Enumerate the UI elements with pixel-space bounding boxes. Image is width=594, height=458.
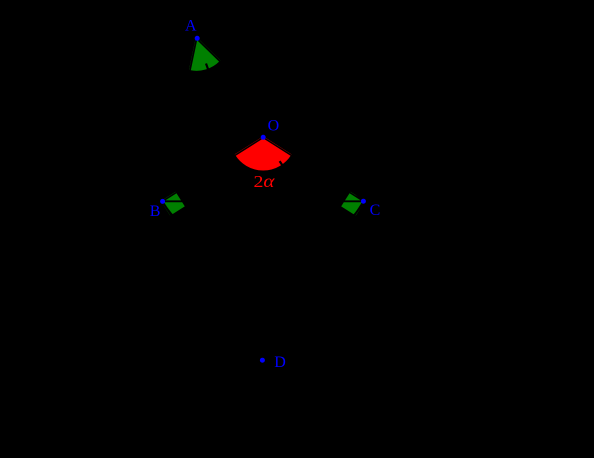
dot C [361, 199, 366, 204]
chord AC [197, 39, 364, 202]
right-angle square mark at C (green, tangent-radius) [343, 193, 364, 214]
dot D [260, 358, 265, 363]
circle centre O (black, invisible on black bg, crosses wedges) [144, 18, 383, 257]
radius OB [162, 138, 263, 202]
chord BC [162, 200, 363, 202]
right-angle square mark at B (green, tangent-radius) [162, 193, 183, 214]
svg-text:B: B [150, 203, 161, 220]
svg-text:2α: 2α [254, 171, 276, 191]
radius OC [263, 138, 364, 202]
rim tick in sector O (radius step notch) [280, 161, 284, 167]
dot B [160, 199, 165, 204]
svg-text:A: A [185, 17, 197, 34]
central angle sector at O (red, 2 alpha) [236, 138, 290, 170]
dot O [261, 135, 266, 140]
svg-text:D: D [274, 354, 286, 371]
svg-text:O: O [268, 118, 280, 135]
svg-text:C: C [370, 202, 381, 219]
angle wedge at A (green, angle BAC) [190, 39, 219, 70]
dot A [195, 36, 200, 41]
rim tick in wedge A (radius step notch) [206, 64, 209, 72]
chord AB [162, 39, 196, 202]
tangent DC [263, 177, 380, 360]
tangent DB [147, 177, 263, 360]
